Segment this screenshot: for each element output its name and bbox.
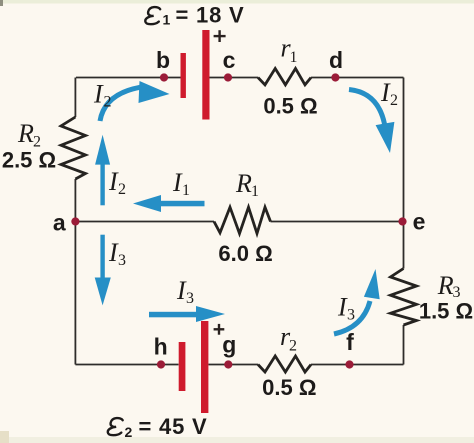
svg-text:= 18 V: = 18 V: [176, 3, 245, 28]
battery EMF1 positive plate: [202, 30, 209, 120]
resistor R2 2.5 ohm (left): [61, 117, 86, 179]
svg-text:R: R: [437, 271, 454, 300]
label R2: [17, 119, 41, 151]
svg-text:6.0 Ω: 6.0 Ω: [218, 241, 272, 266]
svg-text:1: 1: [290, 49, 298, 66]
label f: [346, 329, 354, 355]
node g: [224, 360, 232, 368]
wire left vertical: [74, 78, 76, 365]
label EMF2 = 45 V: [108, 414, 208, 440]
svg-text:2.5 Ω: 2.5 Ω: [2, 148, 56, 173]
svg-text:1: 1: [251, 183, 259, 200]
current arrow I1 (left, middle wire): [133, 195, 205, 212]
svg-text:f: f: [346, 329, 354, 355]
label EMF1 = 18 V: [145, 3, 244, 28]
svg-text:0.5 Ω: 0.5 Ω: [263, 94, 317, 119]
current arrow I3 right (bottom branch): [149, 306, 225, 322]
label I2 (up arrow): [108, 167, 126, 198]
label r1: [281, 34, 298, 67]
label 1.5 ohm: [419, 299, 473, 324]
curved current arrow I3 (bottom right): [334, 269, 380, 334]
label r2: [280, 322, 297, 355]
svg-text:2: 2: [104, 94, 112, 111]
wire right vertical d-e-R3-f: [403, 78, 405, 365]
node f: [345, 360, 353, 368]
node a: [71, 217, 79, 225]
node c: [224, 73, 232, 81]
svg-text:= 45 V: = 45 V: [139, 414, 208, 439]
resistor R1 6.0 ohm (middle): [214, 207, 271, 233]
label 0.5 ohm (bottom): [262, 375, 316, 400]
resistor R3 1.5 ohm (right): [391, 269, 417, 326]
node h: [157, 360, 165, 368]
svg-text:3: 3: [186, 290, 194, 307]
curved current arrow I2 (top left): [100, 81, 170, 121]
label d: [329, 47, 343, 73]
svg-text:2: 2: [118, 181, 126, 198]
svg-text:e: e: [413, 209, 426, 235]
wire top: b-battery-c-r1-d-corner: [76, 77, 404, 79]
wire middle a-R1-e: [75, 221, 403, 223]
resistor r1 0.5 ohm (top): [258, 69, 311, 85]
label a: [53, 210, 66, 236]
node d: [331, 73, 339, 81]
node e: [398, 217, 406, 225]
label I3 (bottom horizontal arrow): [176, 276, 194, 307]
svg-text:h: h: [154, 334, 168, 360]
battery EMF2 positive plate: [201, 321, 208, 413]
plus sign battery 1: [214, 30, 226, 42]
label 0.5 ohm (top): [263, 94, 317, 119]
current arrow I3 down (left branch): [95, 235, 111, 306]
svg-text:b: b: [156, 47, 170, 73]
label I1: [172, 168, 190, 199]
svg-text:0.5 Ω: 0.5 Ω: [262, 375, 316, 400]
svg-text:2: 2: [289, 338, 297, 355]
label c: [223, 47, 236, 73]
label I3 (curved right): [337, 293, 355, 324]
label R1: [235, 169, 259, 200]
label R3: [437, 271, 461, 301]
svg-text:R: R: [17, 119, 34, 148]
label h: [154, 334, 168, 360]
svg-text:I: I: [93, 80, 104, 109]
label g: [222, 332, 236, 358]
svg-text:a: a: [53, 210, 66, 236]
curved current arrow I2 (top right): [349, 90, 394, 154]
svg-text:2: 2: [390, 92, 398, 109]
label 2.5 ohm: [2, 148, 56, 173]
svg-text:d: d: [329, 47, 343, 73]
svg-text:3: 3: [118, 252, 126, 269]
svg-text:g: g: [222, 332, 236, 358]
battery EMF1 negative plate: [181, 53, 186, 98]
svg-text:1.5 Ω: 1.5 Ω: [419, 299, 473, 324]
resistor r2 0.5 ohm (bottom): [258, 356, 311, 372]
svg-text:1: 1: [182, 182, 190, 199]
label b: [156, 47, 170, 73]
plus sign battery 2: [214, 324, 225, 335]
svg-text:1: 1: [163, 12, 171, 28]
current arrow I2 up (left branch): [95, 135, 110, 206]
wire bottom h-battery2-g-r2-f: [75, 364, 403, 366]
label I2 (top right): [380, 78, 398, 109]
node b: [160, 73, 168, 81]
svg-text:3: 3: [347, 307, 355, 324]
svg-text:c: c: [223, 47, 236, 73]
battery EMF2 negative plate: [179, 342, 186, 391]
label I2 (top left curved): [93, 80, 112, 111]
label e: [413, 209, 426, 235]
label 6.0 ohm: [218, 241, 272, 266]
svg-text:R: R: [235, 169, 252, 198]
svg-text:2: 2: [125, 424, 133, 440]
label I3 (down arrow): [108, 238, 126, 269]
